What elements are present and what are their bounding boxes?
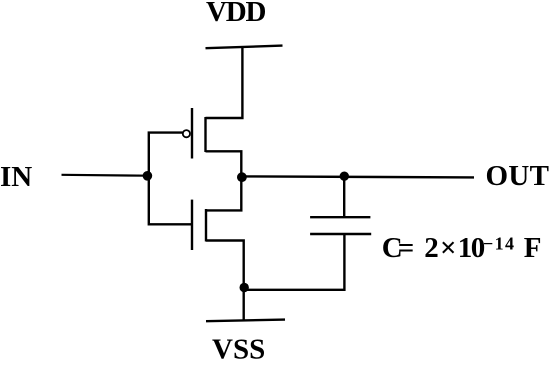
transistor PMOS (pull-up) bbox=[183, 108, 206, 159]
svg-text:OUT: OUT bbox=[486, 160, 550, 192]
wire NMOS drain to output node bbox=[206, 177, 241, 210]
net label VSS bbox=[212, 334, 265, 366]
junction dot capacitor tap bbox=[340, 172, 349, 181]
net label OUT bbox=[486, 160, 550, 192]
value label C = 2x10^-14 F bbox=[382, 232, 542, 264]
junction dot input node bbox=[143, 171, 153, 181]
svg-text:C=2×10−14F: C=2×10−14F bbox=[382, 232, 542, 264]
svg-text:IN: IN bbox=[0, 161, 32, 193]
capacitor C bbox=[310, 217, 371, 234]
power rail VDD bbox=[206, 46, 283, 49]
wire capacitor tap to C top plate bbox=[343, 176, 345, 217]
wire output node to OUT bbox=[242, 176, 474, 177]
wire NMOS source to VSS rail bbox=[206, 241, 244, 321]
junction dot VSS node bbox=[240, 283, 249, 292]
net label IN bbox=[0, 161, 32, 193]
wire C bottom plate to VSS node bbox=[244, 234, 344, 290]
svg-text:VSS: VSS bbox=[212, 334, 265, 366]
power rail VSS bbox=[206, 320, 285, 322]
net label VDD bbox=[206, 0, 265, 28]
wire PMOS drain to output node bbox=[206, 151, 242, 177]
svg-text:VDD: VDD bbox=[206, 0, 265, 28]
wire input node to NMOS gate bbox=[149, 175, 191, 224]
junction dot output node bbox=[237, 172, 247, 182]
transistor NMOS (pull-down) bbox=[192, 200, 206, 250]
wire input node to PMOS gate bbox=[149, 133, 183, 176]
wire VDD rail to PMOS source bbox=[206, 47, 243, 118]
wire IN lead bbox=[62, 174, 149, 177]
